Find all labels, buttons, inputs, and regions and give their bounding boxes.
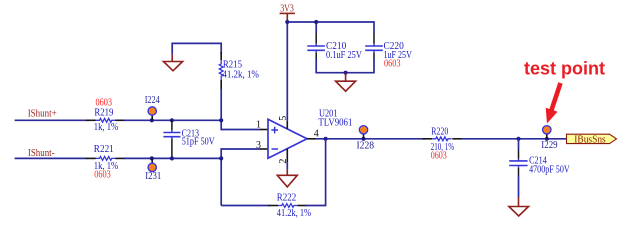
power port 3V3 bar — [280, 12, 295, 14]
wire pin2 to ground — [286, 163, 288, 170]
junction dot I228 — [361, 137, 365, 141]
wire C210 top — [315, 22, 317, 34]
svg-text:0603: 0603 — [384, 58, 401, 69]
wire 3V3 rail — [287, 22, 374, 34]
wire IShunt+ row left segment — [15, 119, 87, 121]
ground wire top-left horizontal — [172, 43, 221, 54]
svg-text:R221: R221 — [94, 144, 114, 155]
ground symbol decoupling stem — [345, 73, 347, 82]
wire output right segment — [462, 138, 567, 140]
junction dot -input node — [219, 156, 223, 160]
svg-text:R219: R219 — [94, 107, 113, 118]
resistor R221 — [96, 157, 115, 161]
svg-text:4: 4 — [314, 129, 319, 140]
op-amp minus sign — [272, 148, 279, 150]
test point I224 stem — [151, 115, 153, 120]
capacitor C214 plates — [509, 161, 527, 166]
svg-text:I229: I229 — [541, 140, 557, 151]
test point I228 circle — [359, 126, 367, 134]
op-amp U201 pin3 — [260, 148, 268, 150]
svg-text:0.1uF 25V: 0.1uF 25V — [326, 50, 363, 61]
svg-text:TLV9061: TLV9061 — [318, 118, 352, 129]
ground symbol left stem — [171, 54, 173, 61]
resistor R220 pins — [423, 138, 463, 140]
op-amp pin2 — [286, 149, 288, 163]
svg-text:I224: I224 — [145, 95, 160, 106]
capacitor C214 top wire — [518, 139, 520, 150]
op-amp pin5 — [286, 121, 288, 129]
resistor R219 pins — [86, 119, 125, 121]
op-amp plus sign — [271, 127, 278, 134]
ground symbol opamp triangle — [277, 175, 297, 187]
svg-text:I228: I228 — [357, 140, 375, 151]
svg-text:0603: 0603 — [431, 151, 447, 162]
resistor R215 pins — [220, 52, 222, 89]
svg-text:IShunt+: IShunt+ — [28, 109, 57, 120]
svg-text:51pF 50V: 51pF 50V — [182, 136, 216, 147]
wire output row — [316, 138, 426, 140]
capacitor C210 bottom pin — [315, 50, 317, 52]
test point I228 stem — [363, 134, 365, 139]
svg-text:1k, 1%: 1k, 1% — [94, 122, 118, 133]
capacitor C213 top pin — [171, 120, 173, 130]
ground symbol left triangle — [164, 62, 183, 71]
svg-text:I231: I231 — [145, 171, 161, 182]
svg-text:41.2k, 1%: 41.2k, 1% — [222, 69, 259, 80]
resistor R222 — [278, 204, 297, 208]
svg-text:IShunt-: IShunt- — [28, 148, 55, 159]
capacitor C210 top pin — [315, 34, 317, 44]
capacitor C213 bottom pin — [171, 137, 173, 139]
power port 3V3 stem — [286, 13, 288, 22]
junction dot output feedback — [324, 137, 328, 141]
junction dot +input node — [219, 118, 223, 122]
wire feedback bottom — [221, 205, 269, 207]
svg-text:41.2k, 1%: 41.2k, 1% — [277, 208, 311, 219]
resistor R222 pins — [268, 205, 307, 207]
test point I229 circle — [543, 126, 551, 134]
junction dot A1 — [150, 118, 154, 122]
capacitor C214 bottom pin — [518, 166, 520, 168]
wire IShunt- row middle — [124, 157, 222, 159]
svg-text:R222: R222 — [277, 193, 297, 204]
junction dot B1 — [150, 156, 154, 160]
capacitor C220 plates — [365, 46, 383, 50]
net flag IBusSns body — [567, 134, 617, 143]
op-amp U201 pin1 — [260, 129, 268, 131]
capacitor C210 plates — [307, 46, 325, 50]
capacitor C213 plates — [163, 133, 180, 137]
test point I224 circle — [148, 107, 156, 115]
svg-text:3: 3 — [256, 140, 261, 151]
svg-text:R220: R220 — [431, 126, 448, 137]
op-amp pin4 output — [307, 138, 316, 140]
wire 3V3 rail to pin5 — [286, 22, 288, 121]
svg-text:1: 1 — [256, 119, 261, 130]
svg-text:0603: 0603 — [94, 170, 111, 181]
junction dot rail C210 — [314, 20, 318, 24]
wire R215 bottom to +input jog — [221, 89, 260, 130]
junction dot 3V3 — [285, 20, 289, 24]
wire IShunt+ row middle — [124, 119, 222, 121]
svg-text:test point: test point — [524, 59, 605, 79]
resistor R215 — [219, 60, 223, 79]
svg-text:IBusSns: IBusSns — [574, 134, 605, 145]
ground symbol C214 triangle — [509, 207, 529, 217]
resistor R221 pins — [86, 157, 125, 159]
annotation red arrow — [546, 82, 563, 123]
junction dot A2 (C213 top) — [170, 118, 174, 122]
capacitor C220 bottom pin — [373, 50, 375, 52]
ground symbol C214 stem — [518, 197, 520, 207]
junction dot bottom rail — [344, 71, 348, 75]
test point I229 stem — [546, 134, 548, 139]
wire feedback right vertical — [306, 139, 326, 206]
wire IShunt- row left segment — [15, 157, 87, 159]
wire -input jog and feedback vertical — [221, 149, 260, 206]
resistor R220 — [432, 137, 451, 141]
junction dot I229 — [545, 137, 549, 141]
op-amp U201 triangle — [268, 119, 307, 158]
capacitor C220 top pin — [373, 34, 375, 44]
wire C214 to ground — [518, 175, 520, 197]
svg-text:4700pF 50V: 4700pF 50V — [529, 164, 570, 175]
junction dot C214 — [516, 137, 520, 141]
ground symbol opamp stem — [286, 169, 288, 175]
resistor R219 — [96, 118, 115, 122]
wire decoupling bottom rail — [316, 59, 374, 73]
junction dot B2 (C213 bottom) — [170, 156, 174, 160]
capacitor C214 top pin — [518, 150, 520, 159]
test point I231 circle — [148, 163, 156, 171]
ground symbol decoupling triangle — [336, 81, 356, 91]
test point I231 stem — [151, 158, 153, 163]
